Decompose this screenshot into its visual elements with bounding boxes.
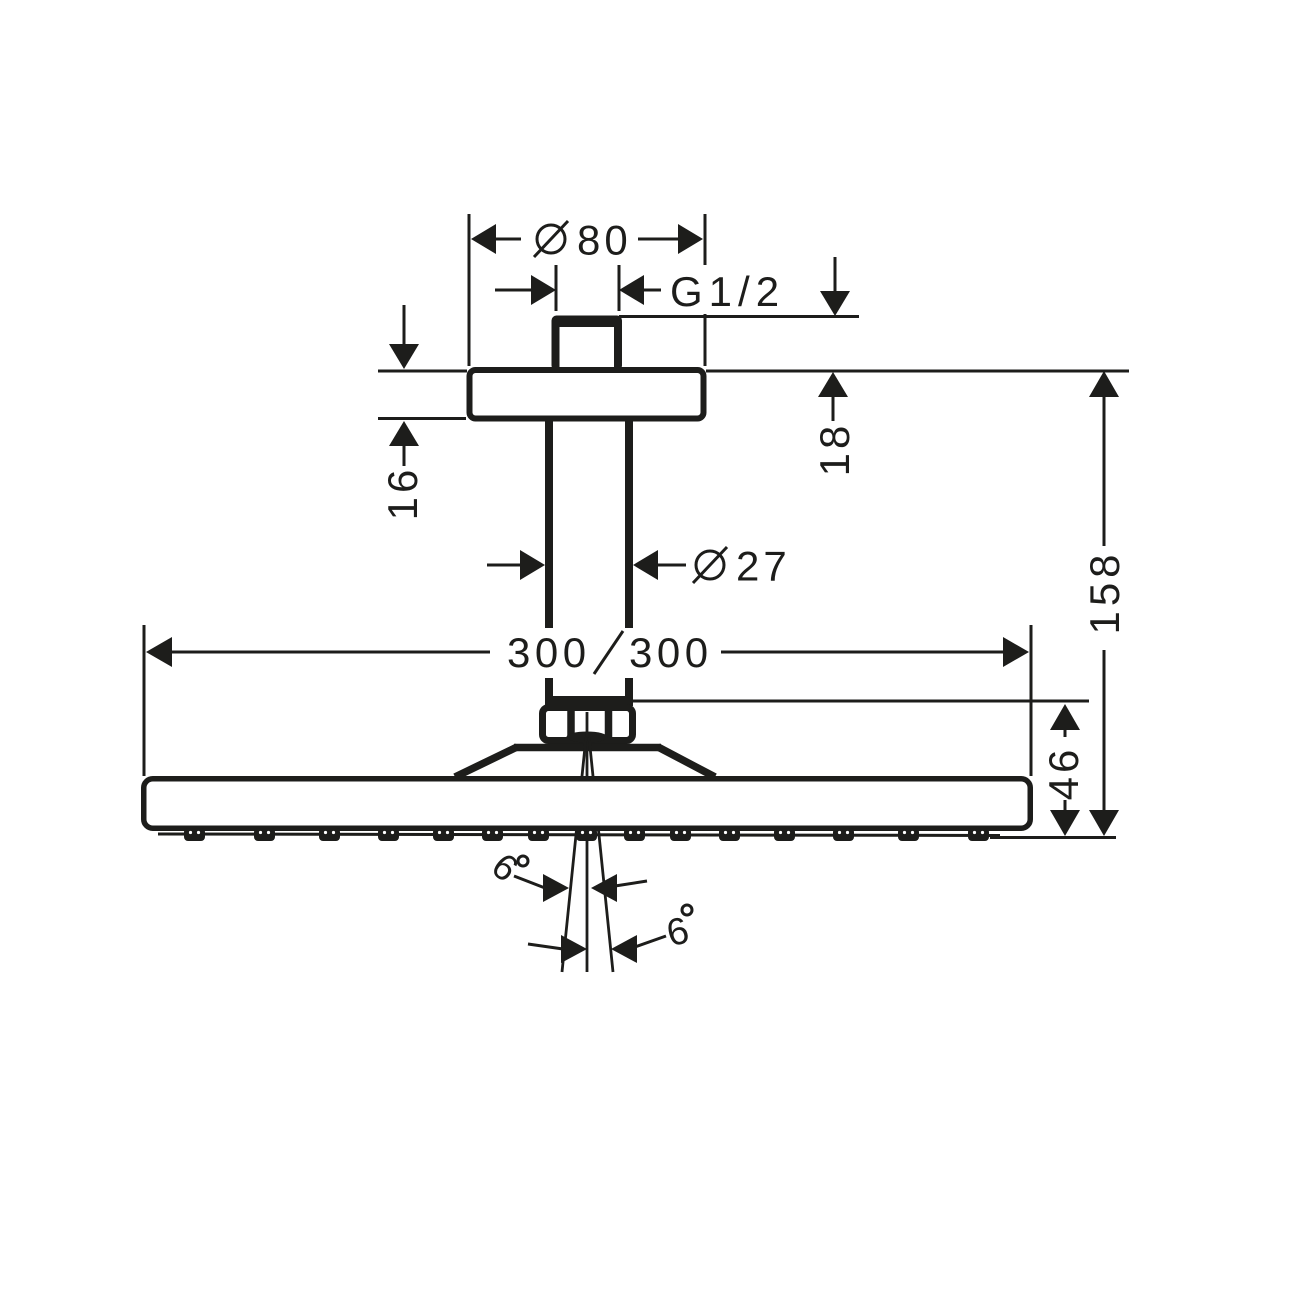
leader right <box>615 881 647 886</box>
arrow left pointing right <box>495 289 534 292</box>
arrow right <box>638 238 683 241</box>
nozzle at x=634.5 <box>624 828 645 841</box>
extension line left <box>143 625 146 776</box>
nozzle at x=538.5 <box>528 828 549 841</box>
nozzle at x=978.5 <box>968 828 989 841</box>
thread depth arrow down <box>834 257 837 295</box>
svg-text:300: 300 <box>507 629 591 676</box>
diameter symbol <box>696 551 724 579</box>
spray face seam line <box>158 834 1000 836</box>
outlet ellipse <box>567 732 608 743</box>
spray cone line right 6deg <box>589 737 613 972</box>
dimension 6deg upper <box>484 845 647 902</box>
nozzle at x=443.5 <box>433 828 454 841</box>
arrow up to ceiling <box>1089 371 1119 397</box>
dimension 300/300 <box>144 625 1031 776</box>
dimension 16 <box>378 305 466 520</box>
arrow pointing right <box>543 874 569 902</box>
arrow right <box>721 651 1007 654</box>
arrow left pointing right <box>487 564 523 567</box>
escutcheon cone top edge <box>514 744 661 752</box>
arrow up to ceiling <box>818 372 848 397</box>
shower arm pipe right wall <box>625 421 633 630</box>
svg-text:G1/2: G1/2 <box>670 268 785 315</box>
collar facet left <box>567 711 575 737</box>
ceiling mounting plate <box>470 370 704 419</box>
svg-text:158: 158 <box>1081 549 1128 634</box>
nozzle at x=843.5 <box>833 828 854 841</box>
arrow left <box>146 637 172 667</box>
arrow up to plate bottom <box>389 421 419 446</box>
spray centre line <box>586 712 589 972</box>
arrow down <box>1064 800 1067 811</box>
connection collar nut <box>543 708 633 741</box>
degree circle <box>682 905 692 915</box>
svg-text:46: 46 <box>1040 746 1087 801</box>
svg-text:16: 16 <box>379 466 426 521</box>
arrow down <box>1089 810 1119 836</box>
G1/2 threaded connector stub <box>552 316 623 372</box>
nozzle at x=908.5 <box>898 828 919 841</box>
spray cone line left 6deg <box>562 737 586 972</box>
shower arm pipe left wall <box>545 421 553 630</box>
46 top reference line <box>631 700 1089 703</box>
arrow up <box>1050 704 1080 730</box>
shower head body <box>144 779 1031 829</box>
arrow right pointing left <box>633 550 658 580</box>
leader left <box>514 876 545 888</box>
nozzle at x=329.5 <box>319 828 340 841</box>
dimension 18 <box>811 372 858 476</box>
dimension Ø80 <box>469 214 705 366</box>
svg-text:300: 300 <box>629 629 713 676</box>
leader right <box>635 936 666 947</box>
extension line right <box>1030 625 1033 776</box>
nozzle at x=784.5 <box>774 828 795 841</box>
arrow pointing left <box>591 874 617 902</box>
nozzle at x=194.5 <box>184 828 205 841</box>
escutcheon cone left slant <box>455 747 517 777</box>
leader left <box>528 944 563 949</box>
dimension Ø27 <box>487 543 791 590</box>
dimension 6deg lower <box>528 905 694 963</box>
dimension 46 <box>1040 704 1087 836</box>
extension line right lower <box>704 314 707 366</box>
pipe end cap <box>545 696 633 706</box>
plate bottom reference line <box>378 417 466 420</box>
lower line <box>1103 650 1106 812</box>
arrow down to ceiling <box>403 305 406 347</box>
thread top reference line <box>619 315 859 318</box>
svg-text:80: 80 <box>577 217 632 264</box>
nozzle at x=729.5 <box>719 828 740 841</box>
degree circle <box>518 856 528 866</box>
escutcheon cone right slant <box>658 747 715 777</box>
nozzle at x=492.5 <box>482 828 503 841</box>
nozzle at x=264.5 <box>254 828 275 841</box>
text mask <box>500 628 724 678</box>
dimension G1/2 <box>495 257 850 316</box>
arrow left <box>471 224 496 254</box>
svg-text:18: 18 <box>811 422 858 477</box>
ceiling line right segment <box>706 370 1129 373</box>
46 bottom reference line <box>990 836 1116 839</box>
extension line right upper <box>704 214 707 265</box>
nozzle at x=388.5 <box>378 828 399 841</box>
svg-text:27: 27 <box>736 543 791 590</box>
extension line left <box>555 265 558 311</box>
arrow pointing right <box>561 935 587 963</box>
extension line left <box>468 214 471 366</box>
arrow right pointing left <box>619 275 644 305</box>
dimension 158 <box>1081 371 1128 836</box>
nozzle at x=680.5 <box>670 828 691 841</box>
extension line right <box>618 265 621 311</box>
ceiling line left segment <box>378 370 467 373</box>
diameter symbol <box>537 225 565 253</box>
nozzle at x=586.5 <box>576 828 597 841</box>
arrow pointing left <box>611 935 637 963</box>
collar facet right <box>605 711 613 737</box>
